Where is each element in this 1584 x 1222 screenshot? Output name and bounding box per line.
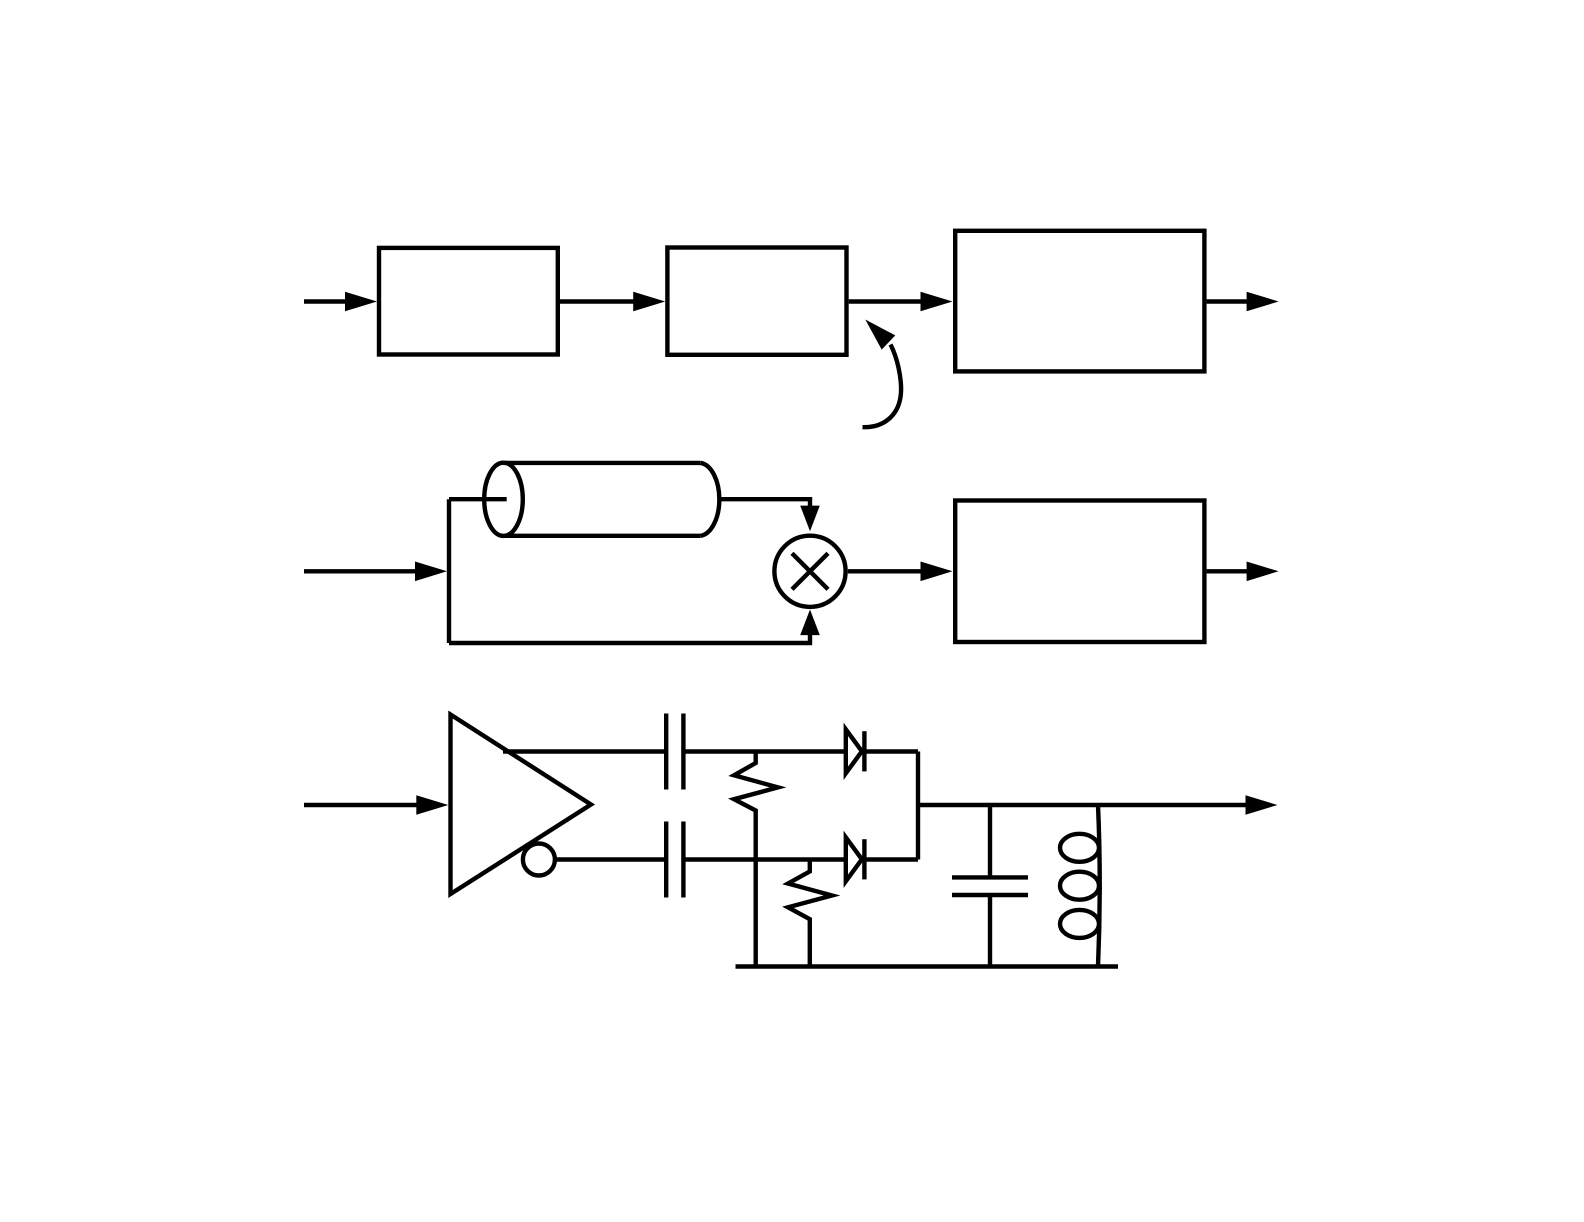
wire amp bottom output bbox=[555, 857, 664, 861]
wire arrow B2 to B3 bbox=[849, 292, 953, 312]
block box B2 bbox=[667, 248, 846, 355]
wire amp top output bbox=[503, 749, 664, 753]
wire output arrow row3 bbox=[918, 795, 1278, 815]
wire C2 to diode D2 bbox=[683, 857, 845, 861]
wire D1 to connector bbox=[864, 749, 918, 753]
diode D2 bbox=[846, 837, 865, 881]
capacitor C3 bbox=[952, 805, 1028, 967]
ground bbox=[736, 964, 1119, 968]
block box B4 bbox=[955, 501, 1204, 643]
capacitor C1 bbox=[666, 714, 683, 790]
block box B3 bbox=[955, 231, 1204, 372]
mixer M1 bbox=[774, 536, 845, 607]
wire right connector vertical bbox=[916, 752, 920, 860]
capacitor C2 bbox=[666, 822, 683, 898]
wire to delay line bbox=[449, 497, 507, 501]
wire input arrow row2 bbox=[304, 562, 447, 582]
resistor R1 bbox=[734, 752, 778, 967]
node branch vertical row2 bbox=[447, 499, 451, 643]
wire input arrow row1 bbox=[304, 292, 377, 312]
block box B1 bbox=[379, 248, 558, 355]
wire input arrow row3 bbox=[304, 795, 448, 815]
resistor R2 bbox=[788, 860, 832, 967]
wire arrow B1 to B2 bbox=[560, 292, 665, 312]
wire output arrow row2 bbox=[1207, 562, 1279, 582]
amplifier A1 bbox=[451, 715, 592, 895]
inductor L1 bbox=[1060, 805, 1100, 967]
curved annotation arrow bbox=[863, 320, 902, 428]
delay line cylinder bbox=[484, 463, 719, 536]
wire bottom branch to mixer with arrowhead bbox=[449, 610, 820, 644]
wire output arrow row1 bbox=[1207, 292, 1279, 312]
wire mixer to box B4 bbox=[848, 562, 953, 582]
diode D1 bbox=[846, 729, 865, 773]
wire D2 to connector bbox=[864, 857, 918, 861]
wire C1 to diode D1 bbox=[683, 749, 845, 753]
wire delay line to mixer with arrowhead bbox=[721, 499, 820, 531]
inversion bubble bbox=[523, 844, 555, 876]
